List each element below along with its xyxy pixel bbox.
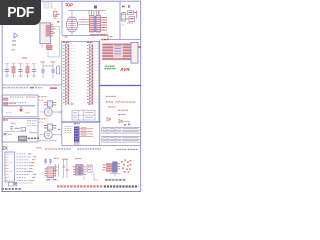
svg-text:ZX: ZX — [2, 146, 8, 151]
svg-text:TOP: TOP — [65, 3, 73, 8]
svg-text:AVR: AVR — [119, 67, 130, 72]
